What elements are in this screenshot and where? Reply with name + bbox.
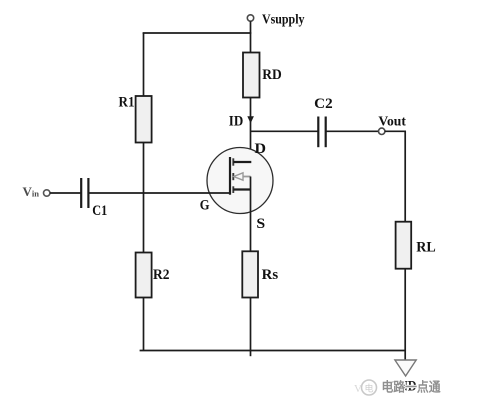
svg-text:RD: RD [262,67,282,83]
transistor M1 body circle [207,148,273,214]
resistor R1 [136,96,152,143]
resistor RD [243,53,260,98]
resistor R2 [136,253,152,298]
svg-text:ID: ID [229,113,244,129]
svg-text:C1: C1 [92,203,107,219]
channel tick body contact [232,173,234,180]
svg-text:RL: RL [416,240,436,256]
svg-text:Vout: Vout [378,115,406,130]
wire Vsupply to top rail [250,21,252,52]
wire R1 to R2 through gate node [143,143,145,253]
wire C2 to Vout [327,130,379,132]
capacitor C2 [317,117,319,148]
node Vsupply terminal [247,15,253,21]
gate plate [229,157,231,195]
wire RD to D node [250,98,252,163]
wire Rs to ground rail with overshoot [250,298,252,357]
wire bottom ground rail [140,350,406,352]
wire ground stub [404,351,406,361]
wire Vout to RL corner [385,130,406,132]
source vertical to Rs [250,177,252,252]
wire RL to ground rail [404,269,406,351]
svg-text:R2: R2 [153,267,170,283]
svg-text:Vsupply: Vsupply [262,13,305,28]
resistor Rs [242,251,258,297]
body wire [243,176,251,178]
watermark logo circle [362,380,377,395]
svg-text:V: V [354,383,362,395]
wire left branch top [143,33,145,97]
channel tick source contact [232,186,234,193]
svg-text:电: 电 [365,383,374,394]
wire C1 to gate [89,192,230,194]
svg-text:S: S [256,216,265,232]
wire Vin to C1 [50,192,81,194]
svg-text:C2: C2 [314,96,333,112]
channel tick drain contact [232,158,234,165]
wire R2 to ground rail [143,298,145,351]
resistor RL [396,222,412,269]
wire RL branch upper [404,131,406,222]
wire top rail [143,32,252,34]
node Vout terminal [379,128,385,134]
source bar [233,188,250,190]
terminal Vin [44,190,50,196]
drain bar [233,161,251,163]
svg-text:Rs: Rs [262,267,279,283]
svg-text:G: G [200,197,210,213]
svg-text:电路一点通: 电路一点通 [382,380,441,395]
svg-text:R1: R1 [119,94,135,110]
current arrow ID [247,116,254,123]
ground [395,360,416,376]
svg-text:D: D [255,141,267,157]
capacitor C1 [80,178,82,208]
body arrow [234,173,243,180]
wire D node to C2 [251,130,318,132]
